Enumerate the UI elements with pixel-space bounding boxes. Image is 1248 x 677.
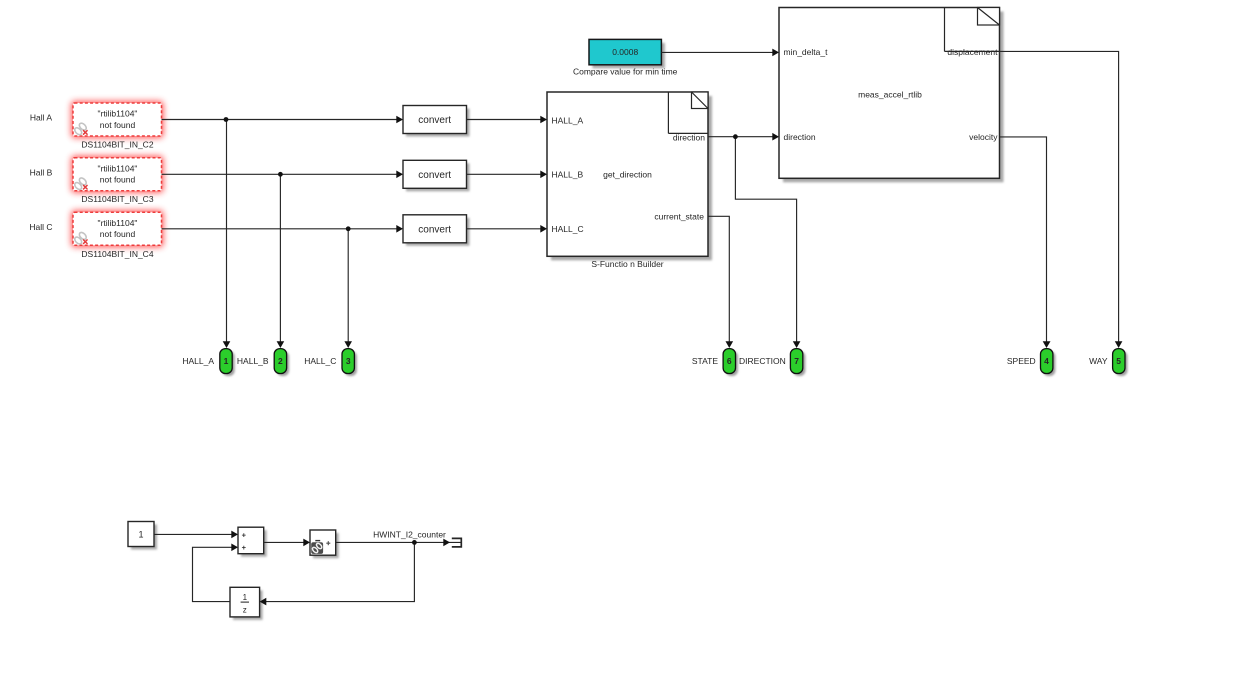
outport 3 HALL_C [304,349,357,376]
svg-text:6: 6 [727,356,732,366]
label Hall A [30,113,53,123]
svg-text:4: 4 [1044,356,1049,366]
svg-text:displacement: displacement [947,47,998,57]
svg-text:SPEED: SPEED [1007,356,1036,366]
svg-text:min_delta_t: min_delta_t [784,47,829,57]
svg-text:Compare value for min time: Compare value for min time [573,66,678,76]
svg-text:direction: direction [673,132,705,142]
convert block 1 [403,106,470,137]
arrowhead into S-Function HALL_C [540,225,547,233]
input block DS1104BIT_IN_C3 (broken library link) [71,156,164,204]
junction dot on direction wire [733,134,738,139]
svg-text:current_state: current_state [654,211,704,221]
svg-text:WAY: WAY [1089,356,1108,366]
arrowhead down into outport 2 [277,341,285,348]
wire branch down to outport 3 [347,229,349,342]
wire convert 3 to S-Function HALL_C [467,228,547,230]
svg-text:direction: direction [784,132,816,142]
convert block 3 [403,215,470,246]
wire Hall B block to convert 2 [162,173,403,175]
label Hall B [30,167,53,177]
svg-text:HALL_C: HALL_C [304,356,336,366]
svg-text:not found: not found [100,120,136,130]
arrowhead into S-Function HALL_A [540,116,547,124]
svg-text:7: 7 [794,356,799,366]
arrowhead down into outport 4 [1043,341,1051,348]
terminator bracket [452,538,462,547]
unit delay block 1/z [230,587,263,620]
junction dot on HWINT wire [412,540,417,545]
svg-text:get_direction: get_direction [603,169,652,179]
svg-text:"rtilib1104": "rtilib1104" [98,109,138,119]
svg-text:Hall B: Hall B [30,167,53,177]
input block DS1104BIT_IN_C4 (broken library link) [71,210,164,258]
svg-text:"rtilib1104": "rtilib1104" [98,163,138,173]
arrowhead into HWINT block [303,539,310,547]
svg-text:convert: convert [418,224,451,235]
outport 4 SPEED [1007,349,1056,376]
svg-text:HALL_A: HALL_A [552,116,584,126]
svg-text:DS1104BIT_IN_C4: DS1104BIT_IN_C4 [81,249,153,259]
arrowhead into terminator [443,539,450,547]
svg-text:meas_accel_rtlib: meas_accel_rtlib [858,89,922,99]
arrowhead down into outport 5 [1115,341,1123,348]
meas_accel_rtlib subsystem block [779,8,1004,183]
arrowhead into unit delay right side [260,598,267,606]
arrowhead into meas_accel min_delta_t [772,49,779,57]
svg-text:HALL_A: HALL_A [182,356,214,366]
wire meas_accel displacement to outport 5 [1000,51,1119,342]
wire branch down to outport 1 [226,120,228,343]
HWINT_I2_counter linked block [310,530,339,558]
svg-text:convert: convert [418,170,451,181]
outport 1 HALL_A [182,349,234,376]
input block DS1104BIT_IN_C2 (broken library link) [71,101,164,149]
wire Hall A block to convert 1 [162,119,403,121]
svg-text:HWINT_I2_counter: HWINT_I2_counter [373,529,446,539]
svg-text:HALL_C: HALL_C [552,224,584,234]
svg-text:DS1104BIT_IN_C2: DS1104BIT_IN_C2 [81,139,153,149]
sum block [238,527,267,557]
outport 6 STATE [692,349,738,376]
svg-text:"rtilib1104": "rtilib1104" [98,218,138,228]
arrowhead into sum input 2 [231,544,238,552]
wire sum to HWINT block [264,541,309,543]
constant block 0.0008 [573,39,678,76]
svg-text:not found: not found [100,175,136,185]
junction dot on Hall C wire [346,226,351,231]
svg-text:3: 3 [346,356,351,366]
arrowhead into meas_accel direction [772,133,779,141]
wire branch down to outport 2 [279,174,281,342]
svg-text:HALL_B: HALL_B [237,356,269,366]
wire convert 2 to S-Function HALL_B [467,173,547,175]
svg-text:DIRECTION: DIRECTION [739,356,786,366]
svg-text:velocity: velocity [969,132,998,142]
arrowhead into convert 3 [396,225,403,233]
arrowhead into convert 2 [396,171,403,179]
arrowhead down into outport 3 [344,341,352,348]
outport 7 DIRECTION [739,349,805,376]
junction dot on Hall B wire [278,172,283,177]
convert block 2 [403,160,470,191]
arrowhead into S-Function HALL_B [540,171,547,179]
wire HWINT block to terminator [336,541,461,543]
svg-text:0.0008: 0.0008 [612,47,638,57]
wire feedback down to unit delay [261,542,414,601]
label HWINT_I2_counter [373,529,446,539]
svg-text:HALL_B: HALL_B [552,169,584,179]
svg-text:S-Functio n Builder: S-Functio n Builder [591,259,663,269]
S-Function Builder block get_direction [547,92,712,269]
svg-text:+: + [242,543,247,552]
svg-text:DS1104BIT_IN_C3: DS1104BIT_IN_C3 [81,194,153,204]
arrowhead down into outport 6 [726,341,734,348]
wire constant 1 to sum [154,533,237,535]
outport 2 HALL_B [237,349,289,376]
junction dot on Hall A wire [224,117,229,122]
svg-text:1: 1 [243,593,248,602]
svg-text:+: + [242,530,247,539]
wire S-Function current_state to outport 6 [708,216,729,342]
svg-text:Hall C: Hall C [29,222,52,232]
svg-text:2: 2 [278,356,283,366]
svg-text:1: 1 [138,529,143,539]
wire constant 0.0008 to min_delta_t [661,51,778,53]
svg-text:convert: convert [418,115,451,126]
arrowhead down into outport 7 [793,341,801,348]
wire branch direction down to outport 7 [735,137,796,342]
svg-text:Hall A: Hall A [30,113,53,123]
arrowhead into convert 1 [396,116,403,124]
svg-text:5: 5 [1116,356,1121,366]
svg-text:STATE: STATE [692,356,718,366]
wire meas_accel velocity to outport 4 [1000,137,1047,342]
wire unit delay to sum second input [193,547,238,601]
arrowhead down into outport 1 [223,341,231,348]
wire convert 1 to S-Function HALL_A [467,119,547,121]
arrowhead into sum input 1 [231,531,238,539]
svg-text:not found: not found [100,229,136,239]
label Hall C [29,222,52,232]
constant block 1 [128,522,157,550]
wire Hall C block to convert 3 [162,228,403,230]
svg-text:1: 1 [224,356,229,366]
svg-text:z: z [243,605,247,614]
wire S-Function direction to meas_accel direction [708,136,778,138]
outport 5 WAY [1089,349,1127,376]
